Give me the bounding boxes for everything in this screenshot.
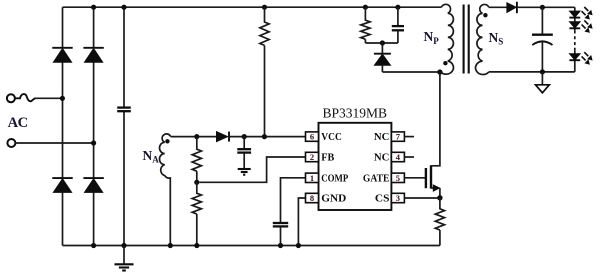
svg-text:NS: NS bbox=[489, 30, 504, 47]
node bottom rail junction at Na bbox=[168, 243, 173, 248]
transformer secondary winding Ns bbox=[476, 4, 489, 74]
node Na phase dot bbox=[165, 139, 169, 143]
wire top rail bbox=[63, 6, 442, 8]
svg-text:NC: NC bbox=[374, 132, 390, 143]
node divider mid junction bbox=[194, 180, 199, 185]
node Ns phase dot bbox=[483, 13, 487, 17]
ground (main earth) bbox=[115, 246, 134, 271]
pin 6 box (VCC) bbox=[306, 132, 319, 141]
node bottom rail junction at GND bbox=[296, 243, 301, 248]
transformer aux winding Na bbox=[160, 134, 171, 246]
svg-text:AC: AC bbox=[8, 115, 28, 131]
resistor R2 (snubber) bbox=[361, 7, 370, 43]
wire CS to source node bbox=[404, 197, 440, 199]
node snubber RC junction bbox=[380, 40, 385, 45]
ground (VCC cap earth) bbox=[238, 169, 251, 175]
wire LED string verticals bbox=[574, 7, 576, 72]
wire NC pin 7 stub bbox=[404, 136, 414, 138]
node bottom rail junction at divider bbox=[194, 243, 199, 248]
pin 5 box (GATE) bbox=[391, 173, 404, 182]
svg-text:3: 3 bbox=[396, 193, 400, 203]
transformer primary winding Np bbox=[440, 4, 453, 74]
op-amp/controller U1 BP3319MB body bbox=[319, 123, 392, 210]
wire NC pin 4 stub bbox=[404, 156, 414, 158]
node divider top junction bbox=[194, 134, 199, 139]
transistor Q1 (MOSFET) bbox=[426, 72, 440, 198]
capacitor C3 (VCC) bbox=[237, 137, 251, 169]
wire snubber RC bottom link bbox=[365, 42, 398, 44]
node top rail junction at snubber cap bbox=[395, 5, 400, 10]
node AC1 junction bbox=[60, 96, 65, 101]
node top rail junction at snubber resistor bbox=[363, 5, 368, 10]
node top rail junction at bridge branch 2 bbox=[91, 5, 96, 10]
diode D4 (bridge lower-right) bbox=[83, 178, 103, 192]
wire GATE to MOSFET bbox=[404, 177, 425, 179]
node Np phase dot bbox=[443, 61, 447, 65]
wire bridge branch 1 bbox=[62, 7, 64, 245]
wire FB feedback bbox=[199, 157, 305, 182]
svg-text:4: 4 bbox=[396, 152, 401, 162]
wire GND pin bbox=[298, 198, 305, 246]
node top rail junction at R1 bbox=[262, 5, 267, 10]
svg-text:CS: CS bbox=[375, 194, 390, 205]
wire output diode to cap bbox=[518, 6, 575, 8]
fuse F1 bbox=[15, 94, 35, 101]
AC terminal top bbox=[7, 94, 15, 102]
wire aux diode to VCC pin bbox=[230, 136, 306, 138]
pin 1 box (COMP) bbox=[306, 173, 319, 182]
resistor R1 (startup) bbox=[260, 7, 269, 136]
node bottom rail junction at C1 bbox=[121, 243, 126, 248]
AC terminal bottom bbox=[7, 139, 15, 147]
node source/CS junction bbox=[437, 195, 442, 200]
svg-text:NC: NC bbox=[374, 153, 390, 164]
svg-text:BP3319MB: BP3319MB bbox=[323, 106, 388, 121]
svg-text:GND: GND bbox=[321, 194, 346, 205]
svg-text:7: 7 bbox=[396, 132, 401, 142]
svg-text:NA: NA bbox=[143, 148, 160, 165]
svg-text:1: 1 bbox=[310, 173, 314, 183]
pin 2 box (FB) bbox=[306, 152, 319, 161]
svg-text:GATE: GATE bbox=[363, 173, 390, 184]
svg-text:2: 2 bbox=[310, 152, 314, 162]
transformer core bbox=[464, 5, 469, 74]
wire bottom ground rail bbox=[63, 245, 440, 247]
LED LED2 bbox=[569, 20, 592, 33]
svg-text:VCC: VCC bbox=[321, 132, 342, 143]
pin 7 box (NC) bbox=[391, 132, 404, 141]
LED LED1 bbox=[569, 7, 592, 20]
diode D3 (bridge lower-left) bbox=[52, 178, 72, 192]
wire AC line 1 bbox=[35, 97, 63, 99]
node AC2 junction bbox=[91, 140, 96, 145]
pin 3 box (CS) bbox=[391, 193, 404, 202]
node VCC cap junction bbox=[242, 134, 247, 139]
svg-text:5: 5 bbox=[396, 173, 400, 183]
resistor R3 (divider upper) bbox=[192, 137, 201, 183]
diode D5 (clamp) bbox=[374, 43, 391, 72]
wire Ns top to output diode bbox=[489, 6, 507, 8]
diode D6 (output rectifier) bbox=[507, 2, 517, 13]
wire bridge branch 2 bbox=[93, 7, 95, 245]
wire AC line 2 bbox=[16, 142, 94, 144]
capacitor C4 (COMP) bbox=[273, 223, 288, 246]
resistor R4 (divider lower) bbox=[192, 182, 201, 245]
wire secondary bottom rail bbox=[489, 71, 575, 73]
capacitor C5 (output, polarized) bbox=[532, 7, 553, 72]
resistor R5 (current sense) bbox=[435, 198, 444, 246]
pin 8 box (GND) bbox=[306, 193, 319, 202]
node startup junction at VCC line bbox=[262, 134, 267, 139]
pin 4 box (NC) bbox=[391, 152, 404, 161]
svg-text:FB: FB bbox=[321, 153, 334, 164]
svg-text:NP: NP bbox=[424, 29, 440, 46]
node drain junction bbox=[437, 69, 442, 74]
svg-text:8: 8 bbox=[310, 193, 314, 203]
diode D2 (bridge upper-right) bbox=[83, 48, 103, 63]
wire COMP pin bbox=[281, 178, 306, 223]
capacitor C2 (snubber) bbox=[392, 7, 404, 43]
diode D1 (bridge upper-left) bbox=[52, 48, 72, 63]
node output top junction bbox=[540, 5, 545, 10]
svg-text:COMP: COMP bbox=[321, 173, 348, 184]
wire clamp to drain node bbox=[382, 71, 440, 73]
LED LED3 bbox=[569, 52, 592, 65]
wire bulk cap branch bbox=[123, 7, 125, 245]
wire LED string dashed middle bbox=[574, 30, 576, 50]
diode D7 (aux rectifier) bbox=[216, 132, 229, 142]
node bottom rail junction at COMP cap bbox=[278, 243, 283, 248]
node output bottom junction bbox=[540, 69, 545, 74]
ground (secondary, open triangle) bbox=[536, 72, 550, 93]
capacitor C1 (bulk) bbox=[117, 108, 131, 112]
svg-text:6: 6 bbox=[310, 132, 314, 142]
wire Na top to diode and VCC bbox=[171, 136, 217, 138]
node bottom rail junction at bridge branch 2 bbox=[91, 243, 96, 248]
node top rail junction at C1 bbox=[121, 5, 126, 10]
